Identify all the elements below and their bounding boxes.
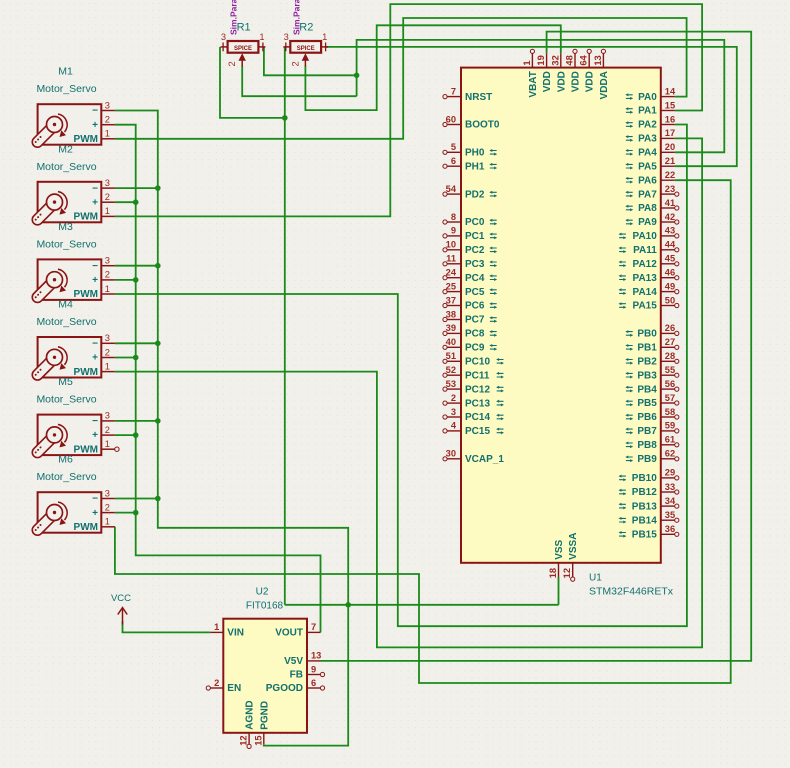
svg-text:6: 6 xyxy=(311,678,316,688)
svg-text:2: 2 xyxy=(105,115,110,125)
svg-text:45: 45 xyxy=(665,254,675,264)
svg-text:STM32F446RETx: STM32F446RETx xyxy=(589,586,674,598)
svg-text:PC10: PC10 xyxy=(465,357,490,368)
U1 pin 50 PA15 xyxy=(619,295,679,311)
U1 top pin 13 VDDA xyxy=(593,49,610,99)
svg-text:AGND: AGND xyxy=(245,700,256,729)
wire R1 wiper loop xyxy=(242,66,356,97)
motor servo M4 xyxy=(32,337,115,380)
wire M3 PWM to PA2 xyxy=(115,125,687,627)
U1 pin 41 PA8 xyxy=(625,198,679,214)
svg-text:4: 4 xyxy=(451,421,457,431)
motor servo M1 xyxy=(32,104,115,147)
wire R2 pin1 H5 to PA5 xyxy=(326,47,737,166)
svg-text:Motor_Servo: Motor_Servo xyxy=(36,238,96,250)
wire R1 pin1 down xyxy=(264,47,357,75)
U1 pin 33 PB12 xyxy=(619,482,679,498)
svg-text:PA3: PA3 xyxy=(638,134,657,145)
U2 pin 1 VIN xyxy=(210,622,244,638)
svg-text:VBAT: VBAT xyxy=(528,71,539,97)
svg-text:Motor_Servo: Motor_Servo xyxy=(36,161,96,173)
svg-text:VDD: VDD xyxy=(556,71,567,92)
svg-text:3: 3 xyxy=(105,100,110,110)
svg-text:PA1: PA1 xyxy=(638,106,657,117)
wire M4 pin3 to minus bus xyxy=(115,342,158,344)
svg-text:27: 27 xyxy=(665,337,675,347)
svg-text:41: 41 xyxy=(665,198,675,208)
U1 pin 2 PC13 xyxy=(443,393,504,409)
wire M2 pin3 to minus bus xyxy=(115,187,158,189)
svg-text:PWM: PWM xyxy=(74,134,98,145)
U1 pin 57 PB5 xyxy=(625,393,679,409)
svg-text:1: 1 xyxy=(105,129,110,139)
svg-text:59: 59 xyxy=(665,421,675,431)
U1 pin 40 PC9 xyxy=(443,337,497,353)
U1 pin 27 PB1 xyxy=(625,337,679,353)
U1 pin 60 BOOT0 xyxy=(443,114,500,130)
wire M3 pin3 to minus bus xyxy=(115,265,158,267)
svg-text:PD2: PD2 xyxy=(465,189,485,200)
U1 pin 54 PD2 xyxy=(443,184,497,200)
U2 pin 7 VOUT xyxy=(275,622,320,638)
svg-text:55: 55 xyxy=(665,365,675,375)
U1 pin 38 PC7 xyxy=(443,309,497,325)
svg-text:PWM: PWM xyxy=(74,522,98,533)
svg-text:44: 44 xyxy=(665,240,676,250)
svg-text:Motor_Servo: Motor_Servo xyxy=(36,83,96,95)
U1 pin 49 PA14 xyxy=(619,281,679,297)
U1 pin 17 PA3 xyxy=(625,128,675,144)
junction R1 net xyxy=(354,73,360,79)
svg-text:PB4: PB4 xyxy=(637,384,657,395)
U1 pin 39 PC8 xyxy=(443,323,497,339)
svg-text:53: 53 xyxy=(446,379,456,389)
svg-text:PA7: PA7 xyxy=(638,189,657,200)
U1 pin 53 PC12 xyxy=(443,379,504,395)
svg-text:BOOT0: BOOT0 xyxy=(465,120,500,131)
svg-text:PWM: PWM xyxy=(74,289,98,300)
wire R2 pin3 down to GND line xyxy=(284,47,286,605)
regulator U2 FIT0168 body xyxy=(223,619,307,733)
potentiometer R2 xyxy=(283,41,328,66)
U1 pin 42 PA9 xyxy=(625,212,679,228)
svg-text:33: 33 xyxy=(665,482,675,492)
unconnected pin end M5 PWM xyxy=(115,447,119,451)
junction plus bus M3 xyxy=(133,277,139,283)
svg-text:46: 46 xyxy=(665,268,675,278)
svg-text:54: 54 xyxy=(446,184,457,194)
U1 pin 58 PB6 xyxy=(625,407,679,423)
U1 top pin 48 VDD xyxy=(565,49,582,92)
svg-text:2: 2 xyxy=(105,425,110,435)
svg-text:−: − xyxy=(92,261,98,272)
U1 pin 23 PA7 xyxy=(625,184,679,200)
svg-text:PA9: PA9 xyxy=(638,217,657,228)
svg-text:2: 2 xyxy=(227,61,237,66)
svg-text:Sim.Params...: Sim.Params... xyxy=(291,0,301,35)
svg-text:PA13: PA13 xyxy=(633,273,658,284)
svg-text:11: 11 xyxy=(446,254,456,264)
U1 pin 56 PB4 xyxy=(625,379,679,395)
svg-text:PB9: PB9 xyxy=(637,454,657,465)
svg-text:42: 42 xyxy=(665,212,675,222)
svg-text:PB6: PB6 xyxy=(637,412,657,423)
svg-text:9: 9 xyxy=(311,664,316,674)
microcontroller U1 STM32F446RETx body xyxy=(461,68,661,563)
wire M2 pin2 to plus bus xyxy=(115,201,136,203)
svg-text:M5: M5 xyxy=(58,376,73,388)
svg-text:PB5: PB5 xyxy=(637,398,657,409)
svg-text:PB0: PB0 xyxy=(637,329,657,340)
U1 pin 25 PC5 xyxy=(443,281,497,297)
motor servo M2 xyxy=(32,182,115,225)
svg-text:PB15: PB15 xyxy=(632,530,657,541)
svg-text:61: 61 xyxy=(665,435,675,445)
svg-text:R1: R1 xyxy=(237,22,251,34)
svg-text:3: 3 xyxy=(105,411,110,421)
svg-text:62: 62 xyxy=(665,449,675,459)
svg-text:PA5: PA5 xyxy=(638,161,657,172)
svg-text:PC15: PC15 xyxy=(465,426,490,437)
svg-text:24: 24 xyxy=(446,268,457,278)
svg-text:PC13: PC13 xyxy=(465,398,490,409)
svg-text:PA15: PA15 xyxy=(633,301,658,312)
svg-text:1: 1 xyxy=(105,361,110,371)
U1 pin 15 PA1 xyxy=(625,100,675,116)
svg-text:39: 39 xyxy=(446,323,456,333)
svg-text:−: − xyxy=(92,416,98,427)
svg-text:25: 25 xyxy=(446,281,456,291)
U2 bottom pin 15 PGND xyxy=(253,701,270,746)
svg-text:1: 1 xyxy=(322,32,327,42)
svg-text:+: + xyxy=(92,197,98,208)
junction plus bus M6 xyxy=(133,510,139,516)
svg-text:50: 50 xyxy=(665,295,675,305)
wire R1 net H4 to PA4 xyxy=(357,40,725,152)
U1 pin 36 PB15 xyxy=(619,524,679,540)
svg-text:1: 1 xyxy=(105,439,110,449)
svg-text:3: 3 xyxy=(284,32,289,42)
junction plus bus M2 xyxy=(133,199,139,205)
svg-text:PA8: PA8 xyxy=(638,203,657,214)
svg-text:M2: M2 xyxy=(58,143,73,155)
U2 pin 2 EN xyxy=(206,678,241,694)
wire M2 PWM to PA1 xyxy=(115,4,702,216)
wire M3 pin2 to plus bus xyxy=(115,279,136,281)
wire M4 PWM to PA3 xyxy=(115,138,702,647)
svg-text:NRST: NRST xyxy=(465,92,492,103)
wire servo plus bus to VOUT xyxy=(115,125,321,633)
svg-text:PB12: PB12 xyxy=(632,487,657,498)
svg-text:−: − xyxy=(92,183,98,194)
svg-text:1: 1 xyxy=(214,622,219,632)
svg-text:Motor_Servo: Motor_Servo xyxy=(36,471,96,483)
junction plus bus M5 xyxy=(133,432,139,438)
svg-text:43: 43 xyxy=(665,226,675,236)
U1 pin 3 PC14 xyxy=(443,407,504,423)
U1 pin 8 PC0 xyxy=(443,212,497,228)
U1 pin 35 PB14 xyxy=(619,510,679,526)
svg-text:18: 18 xyxy=(548,568,558,578)
svg-text:Sim.Params...: Sim.Params... xyxy=(229,0,239,35)
svg-text:+: + xyxy=(92,353,98,364)
U1 bottom pin 12 VSSA xyxy=(562,533,579,582)
svg-text:PB3: PB3 xyxy=(637,370,657,381)
U1 pin 26 PB0 xyxy=(625,323,679,339)
svg-text:3: 3 xyxy=(105,488,110,498)
svg-text:13: 13 xyxy=(311,651,321,661)
junction GND node xyxy=(345,602,351,608)
svg-text:64: 64 xyxy=(579,54,589,65)
wire R1 pin3 down xyxy=(220,47,285,118)
svg-text:M6: M6 xyxy=(58,454,73,466)
svg-text:+: + xyxy=(92,120,98,131)
svg-text:PC14: PC14 xyxy=(465,412,490,423)
svg-text:10: 10 xyxy=(446,240,456,250)
U1 pin 46 PA13 xyxy=(619,268,679,284)
svg-text:FB: FB xyxy=(290,670,303,681)
svg-text:2: 2 xyxy=(214,678,219,688)
svg-text:PC9: PC9 xyxy=(465,343,485,354)
svg-text:3: 3 xyxy=(105,178,110,188)
wire GND to PGND xyxy=(264,605,348,746)
svg-text:16: 16 xyxy=(665,114,675,124)
U1 pin 20 PA4 xyxy=(625,142,675,158)
svg-text:VOUT: VOUT xyxy=(275,628,303,639)
U2 bottom pin 12 AGND xyxy=(239,700,256,748)
wire M6 PWM to PA6 xyxy=(115,180,731,683)
svg-text:7: 7 xyxy=(451,86,456,96)
svg-text:6: 6 xyxy=(451,156,456,166)
U1 pin 52 PC11 xyxy=(443,365,504,381)
svg-text:30: 30 xyxy=(446,449,456,459)
svg-text:1: 1 xyxy=(522,60,532,65)
wire M5 pin3 to minus bus xyxy=(115,420,158,422)
U1 top pin 1 VBAT xyxy=(522,49,539,97)
svg-text:9: 9 xyxy=(451,226,456,236)
wire R2 wiper to VDD32 xyxy=(305,25,560,110)
U1 pin 28 PB2 xyxy=(625,351,679,367)
U1 pin 37 PC6 xyxy=(443,295,497,311)
svg-text:Motor_Servo: Motor_Servo xyxy=(36,394,96,406)
svg-text:VCC: VCC xyxy=(111,593,131,604)
svg-text:15: 15 xyxy=(253,735,263,745)
svg-text:56: 56 xyxy=(665,379,675,389)
svg-text:PB14: PB14 xyxy=(632,515,657,526)
svg-text:−: − xyxy=(92,494,98,505)
U1 pin 51 PC10 xyxy=(443,351,504,367)
svg-text:PC0: PC0 xyxy=(465,217,485,228)
svg-text:21: 21 xyxy=(665,156,675,166)
svg-text:13: 13 xyxy=(593,55,603,65)
svg-text:PA0: PA0 xyxy=(638,92,657,103)
U1 bottom pin 18 VSS xyxy=(548,539,565,578)
svg-text:26: 26 xyxy=(665,323,675,333)
svg-text:+: + xyxy=(92,508,98,519)
svg-text:V5V: V5V xyxy=(284,656,303,667)
svg-text:2: 2 xyxy=(105,502,110,512)
svg-text:Motor_Servo: Motor_Servo xyxy=(36,316,96,328)
junction minus bus M6 xyxy=(155,496,161,502)
svg-text:19: 19 xyxy=(536,55,546,65)
svg-text:12: 12 xyxy=(562,568,572,578)
svg-text:7: 7 xyxy=(311,622,316,632)
svg-text:M3: M3 xyxy=(58,221,73,233)
svg-text:1: 1 xyxy=(105,284,110,294)
svg-text:SPICE: SPICE xyxy=(297,46,315,52)
U1 pin 9 PC1 xyxy=(443,226,497,242)
svg-text:PWM: PWM xyxy=(74,367,98,378)
svg-text:PH1: PH1 xyxy=(465,161,485,172)
svg-text:35: 35 xyxy=(665,510,675,520)
svg-text:PGND: PGND xyxy=(259,701,270,730)
svg-text:PA14: PA14 xyxy=(633,287,658,298)
U2 pin 9 FB xyxy=(290,664,325,680)
U1 pin 44 PA11 xyxy=(619,240,679,256)
svg-text:1: 1 xyxy=(105,517,110,527)
svg-text:FIT0168: FIT0168 xyxy=(246,600,284,611)
wire M4 pin2 to plus bus xyxy=(115,357,136,359)
wire VDD19 H6 to V5V xyxy=(321,32,752,661)
svg-text:3: 3 xyxy=(221,32,226,42)
svg-text:PA4: PA4 xyxy=(638,148,657,159)
U1 top pin 32 VDD xyxy=(550,53,567,92)
svg-text:2: 2 xyxy=(105,192,110,202)
svg-text:PC4: PC4 xyxy=(465,273,485,284)
svg-text:VDD: VDD xyxy=(542,71,553,92)
junction minus bus M5 xyxy=(155,418,161,424)
svg-text:22: 22 xyxy=(665,170,675,180)
U2 pin 13 V5V xyxy=(284,651,321,667)
svg-text:VCAP_1: VCAP_1 xyxy=(465,454,504,465)
svg-text:5: 5 xyxy=(451,142,456,152)
U1 pin 30 VCAP_1 xyxy=(443,449,504,465)
wire M1 PWM to PA0 xyxy=(115,18,687,139)
svg-text:U2: U2 xyxy=(256,587,269,598)
svg-text:PB10: PB10 xyxy=(632,473,657,484)
svg-text:+: + xyxy=(92,275,98,286)
svg-text:PB2: PB2 xyxy=(637,357,657,368)
svg-text:40: 40 xyxy=(446,337,456,347)
U1 pin 21 PA5 xyxy=(625,156,675,172)
svg-text:57: 57 xyxy=(665,393,675,403)
svg-text:VDD: VDD xyxy=(585,71,596,92)
svg-text:2: 2 xyxy=(105,270,110,280)
wire VCC to VIN xyxy=(123,621,211,632)
svg-text:PA10: PA10 xyxy=(633,231,658,242)
svg-text:M1: M1 xyxy=(58,66,73,78)
svg-text:34: 34 xyxy=(665,496,676,506)
svg-text:PB1: PB1 xyxy=(637,343,657,354)
U2 pin 6 PGOOD xyxy=(266,678,325,694)
svg-text:60: 60 xyxy=(446,114,456,124)
U1 pin 24 PC4 xyxy=(443,268,497,284)
U1 pin 4 PC15 xyxy=(443,421,504,437)
svg-text:VIN: VIN xyxy=(227,628,244,639)
junction R pots pin3 join xyxy=(282,115,288,121)
svg-text:SPICE: SPICE xyxy=(234,46,252,52)
svg-text:36: 36 xyxy=(665,524,675,534)
svg-text:32: 32 xyxy=(550,55,560,65)
svg-text:VSS: VSS xyxy=(554,539,565,559)
svg-text:PC6: PC6 xyxy=(465,301,485,312)
svg-text:PGOOD: PGOOD xyxy=(266,683,303,694)
U1 pin 43 PA10 xyxy=(619,226,679,242)
U1 pin 29 PB10 xyxy=(619,468,679,484)
svg-text:2: 2 xyxy=(290,61,300,66)
svg-text:EN: EN xyxy=(227,683,241,694)
power symbol VCC xyxy=(118,608,127,625)
svg-text:37: 37 xyxy=(446,295,456,305)
svg-text:M4: M4 xyxy=(58,299,73,311)
svg-text:PA11: PA11 xyxy=(633,245,657,256)
svg-text:2: 2 xyxy=(451,393,456,403)
svg-text:28: 28 xyxy=(665,351,675,361)
svg-text:8: 8 xyxy=(451,212,456,222)
svg-text:52: 52 xyxy=(446,365,456,375)
svg-text:VDDA: VDDA xyxy=(599,71,610,99)
junction minus bus M3 xyxy=(155,263,161,269)
svg-text:PH0: PH0 xyxy=(465,148,485,159)
svg-text:20: 20 xyxy=(665,142,675,152)
U1 pin 11 PC3 xyxy=(443,254,497,270)
svg-text:PC12: PC12 xyxy=(465,384,490,395)
svg-text:−: − xyxy=(92,106,98,117)
svg-text:3: 3 xyxy=(451,407,456,417)
motor servo M6 xyxy=(32,492,115,535)
U1 pin 62 PB9 xyxy=(625,449,679,465)
svg-text:58: 58 xyxy=(665,407,675,417)
svg-text:PC8: PC8 xyxy=(465,329,485,340)
junction minus bus M2 xyxy=(155,185,161,191)
U1 pin 16 PA2 xyxy=(625,114,675,130)
svg-text:VSSA: VSSA xyxy=(568,533,579,560)
svg-text:+: + xyxy=(92,430,98,441)
svg-text:PB8: PB8 xyxy=(637,440,657,451)
U1 pin 55 PB3 xyxy=(625,365,679,381)
svg-text:−: − xyxy=(92,339,98,350)
svg-text:VDD: VDD xyxy=(571,71,582,92)
wire M5 pin2 to plus bus xyxy=(115,434,136,436)
wire GND line FIT0168 to VSS xyxy=(285,604,559,606)
svg-text:PB13: PB13 xyxy=(632,501,657,512)
svg-text:PWM: PWM xyxy=(74,212,98,223)
svg-text:1: 1 xyxy=(105,206,110,216)
svg-text:R2: R2 xyxy=(299,22,313,34)
svg-text:12: 12 xyxy=(239,735,249,745)
svg-text:PA12: PA12 xyxy=(633,259,658,270)
motor servo M3 xyxy=(32,259,115,302)
svg-text:PA2: PA2 xyxy=(638,120,657,131)
U1 pin 5 PH0 xyxy=(443,142,497,158)
svg-text:38: 38 xyxy=(446,309,456,319)
U1 top pin 19 VDD xyxy=(536,53,553,92)
junction minus bus M4 xyxy=(155,341,161,347)
motor servo M5 xyxy=(32,415,115,458)
junction plus bus M4 xyxy=(133,355,139,361)
wire VSS drop xyxy=(558,577,560,605)
svg-text:PWM: PWM xyxy=(74,444,98,455)
svg-text:48: 48 xyxy=(565,55,575,65)
potentiometer R1 xyxy=(221,41,266,66)
U1 pin 45 PA12 xyxy=(619,254,679,270)
U1 pin 59 PB7 xyxy=(625,421,679,437)
wire servo minus bus xyxy=(115,111,348,605)
U1 pin 14 PA0 xyxy=(625,86,676,102)
svg-text:17: 17 xyxy=(665,128,675,138)
U1 top pin 64 VDD xyxy=(579,49,596,92)
svg-text:PC2: PC2 xyxy=(465,245,485,256)
